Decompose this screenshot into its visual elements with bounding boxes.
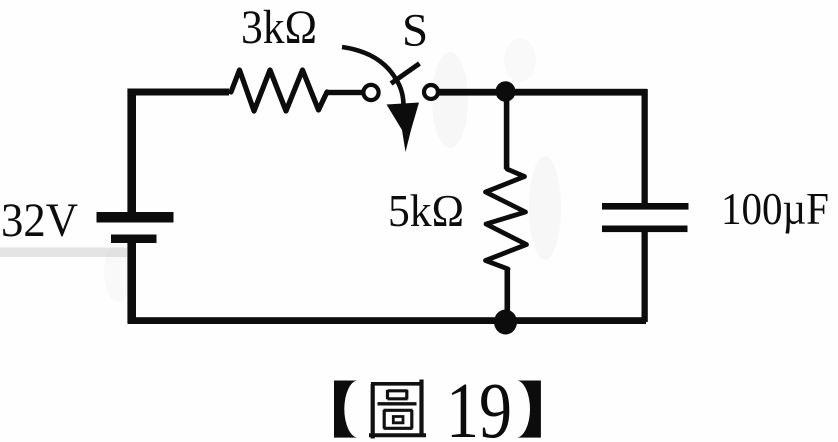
scan noise smudge around switch arrow (432, 52, 468, 148)
caption bracket right (517, 381, 541, 438)
scan noise below battery (104, 242, 132, 302)
svg-text:19: 19 (446, 368, 512, 442)
capacitor C 100µF bottom plate (602, 226, 688, 233)
wire middle branch upper (504, 91, 510, 169)
wire switch to top-right corner (439, 89, 647, 96)
resistor R 3kΩ zigzag (231, 70, 327, 111)
switch blade (391, 64, 420, 84)
wire right vertical lower (642, 231, 648, 322)
wire bottom horizontal (128, 317, 646, 324)
switch S left terminal circle (363, 85, 378, 100)
switch S right terminal circle (424, 85, 438, 99)
caption glyph 圖 (369, 380, 426, 439)
wire battery to bottom-left corner (127, 242, 136, 324)
wire middle branch lower (505, 268, 511, 322)
battery B 32V top plate (97, 212, 174, 223)
switch motion arc (342, 47, 404, 106)
node junction dot bottom (494, 310, 517, 335)
scan noise smudge right of 5k resistor (529, 156, 561, 260)
switch arrowhead (387, 103, 420, 153)
battery B 32V bottom plate (111, 235, 157, 244)
svg-text:32V: 32V (1, 194, 78, 247)
caption bracket left (334, 381, 357, 438)
svg-text:100µF: 100µF (721, 184, 829, 234)
svg-text:5kΩ: 5kΩ (388, 185, 464, 236)
wire left vertical (127, 89, 136, 214)
scan noise smudge left (0, 248, 127, 258)
svg-text:3kΩ: 3kΩ (241, 1, 317, 54)
resistor R 5kΩ vertical zigzag (486, 169, 527, 269)
wire right vertical upper (642, 89, 648, 204)
svg-text:S: S (402, 5, 428, 57)
node junction dot top (496, 81, 516, 102)
wire top-left horizontal (128, 89, 229, 96)
scan noise above junction (504, 38, 536, 82)
capacitor C 100µF top plate (602, 203, 689, 210)
wire resistor to switch (327, 90, 362, 95)
